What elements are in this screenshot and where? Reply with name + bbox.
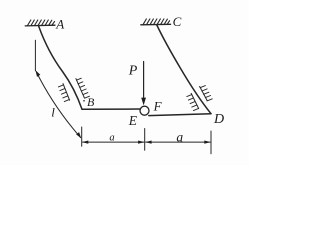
svg-text:A: A [55, 16, 64, 31]
svg-text:l: l [51, 105, 55, 120]
support A hatching [28, 20, 55, 25]
roller F circle [140, 106, 149, 115]
svg-text:P: P [128, 64, 138, 79]
svg-text:a: a [176, 130, 183, 145]
support C hatching [143, 19, 169, 24]
svg-text:F: F [153, 99, 163, 114]
force P arrowhead [141, 98, 146, 106]
guide at D right comb teeth [200, 86, 212, 101]
guide at B right comb teeth [76, 78, 89, 98]
bar CD [157, 25, 211, 114]
dimension a right-right arrowhead [204, 141, 210, 144]
dimension a left-right arrowhead [138, 141, 144, 144]
guide at B right comb spine [76, 79, 85, 98]
guide at B left comb teeth [58, 85, 69, 102]
dimension line a left [83, 141, 144, 143]
bar ED horizontal [149, 114, 211, 116]
dimension l top arrowhead [36, 70, 41, 77]
guide at D right comb spine [200, 86, 208, 100]
dimension tick below E [144, 129, 146, 151]
dimension l bottom arrowhead [76, 132, 81, 138]
bar AB [39, 26, 82, 109]
svg-text:D: D [213, 112, 224, 127]
point dot near B [83, 100, 85, 102]
force P arrow shaft [143, 62, 145, 100]
svg-text:a: a [109, 132, 114, 143]
dimension line a right [146, 141, 211, 143]
svg-text:B: B [87, 95, 95, 109]
guide at D left comb teeth [187, 95, 199, 111]
bar BE horizontal [82, 108, 140, 110]
dimension a left-left arrowhead [82, 141, 88, 144]
dimension a right-left arrowhead [145, 141, 151, 144]
dimension witness line below D [210, 131, 212, 154]
support A ceiling line [25, 24, 55, 27]
support C ceiling line [141, 23, 171, 26]
guide at D left comb spine [191, 93, 199, 108]
dimension l witness line from A [34, 40, 36, 71]
dimension l line [36, 72, 80, 138]
svg-text:E: E [128, 113, 138, 128]
dimension a witness line below B [81, 127, 83, 146]
guide at B left comb spine [63, 84, 70, 101]
svg-text:C: C [173, 14, 182, 29]
